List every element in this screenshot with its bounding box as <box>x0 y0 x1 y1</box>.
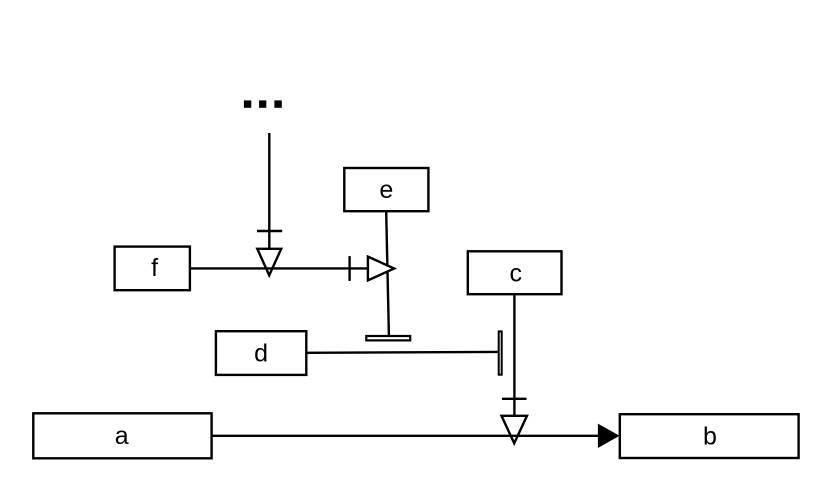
svg-text:b: b <box>703 422 717 450</box>
wire c down to arrowhead <box>513 294 515 416</box>
wire from ellipsis down to arrowhead <box>268 133 270 249</box>
box b <box>620 414 799 458</box>
buffer triangle (right-pointing, open) <box>368 257 394 281</box>
box f <box>115 247 190 291</box>
svg-text:c: c <box>509 259 522 287</box>
box e <box>344 168 428 211</box>
svg-text:f: f <box>151 254 158 282</box>
tick mark on ellipsis wire <box>257 230 282 232</box>
tick mark on c wire <box>502 398 527 400</box>
svg-text:e: e <box>379 176 393 204</box>
solid arrowhead into box b <box>598 425 618 448</box>
T-bar terminal (vertical) at end of d wire <box>499 331 502 374</box>
T-bar terminal (horizontal) at end of e wire <box>366 336 410 340</box>
box a <box>33 413 211 458</box>
svg-text:d: d <box>254 340 268 368</box>
wire f to buffer <box>191 267 368 269</box>
tick mark before buffer <box>348 256 350 281</box>
ellipsis dots (continuation marker) <box>244 100 282 107</box>
wire a to b <box>212 435 600 437</box>
box c <box>468 251 562 294</box>
box d <box>216 331 306 375</box>
wire d to vertical T-bar <box>307 351 498 354</box>
open arrowhead (down) onto a-b wire <box>502 416 528 444</box>
open arrowhead (down) onto f wire <box>257 249 281 275</box>
wire e down to T-bar <box>386 212 389 336</box>
svg-text:a: a <box>115 422 129 450</box>
